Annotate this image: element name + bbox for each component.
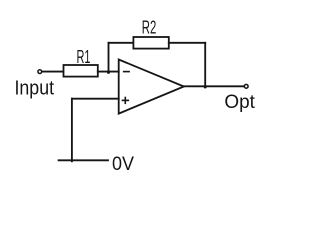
resistor R2 [133, 37, 168, 49]
svg-text:R1: R1 [77, 46, 91, 67]
terminal: Input [38, 70, 42, 74]
svg-text:Input: Input [15, 77, 55, 99]
terminal: Opt output [244, 84, 248, 88]
wire node A to R2 left [109, 42, 134, 44]
wire feedback vertical down to output node [204, 43, 206, 87]
wire R2 right to feedback corner [169, 42, 205, 44]
svg-text:R2: R2 [142, 17, 157, 38]
junction dot output node [204, 86, 207, 89]
wire input terminal to R1 [42, 71, 63, 73]
ground rail 0V [59, 159, 108, 161]
wire R1 to op-amp inverting input [98, 71, 119, 73]
wire non-inverting input down to ground rail [71, 99, 73, 162]
svg-text:0V: 0V [112, 153, 134, 175]
wire non-inverting input horizontal [72, 98, 119, 100]
junction dot node A [107, 71, 110, 74]
resistor R1 [64, 65, 98, 77]
node A junction wire up to R2 [108, 43, 110, 72]
op-amp plus pin label [122, 98, 128, 104]
op-amp U1 [119, 60, 184, 114]
wire op-amp output to terminal [184, 85, 244, 87]
svg-text:Opt: Opt [224, 92, 255, 113]
op-amp minus pin label [124, 71, 129, 73]
